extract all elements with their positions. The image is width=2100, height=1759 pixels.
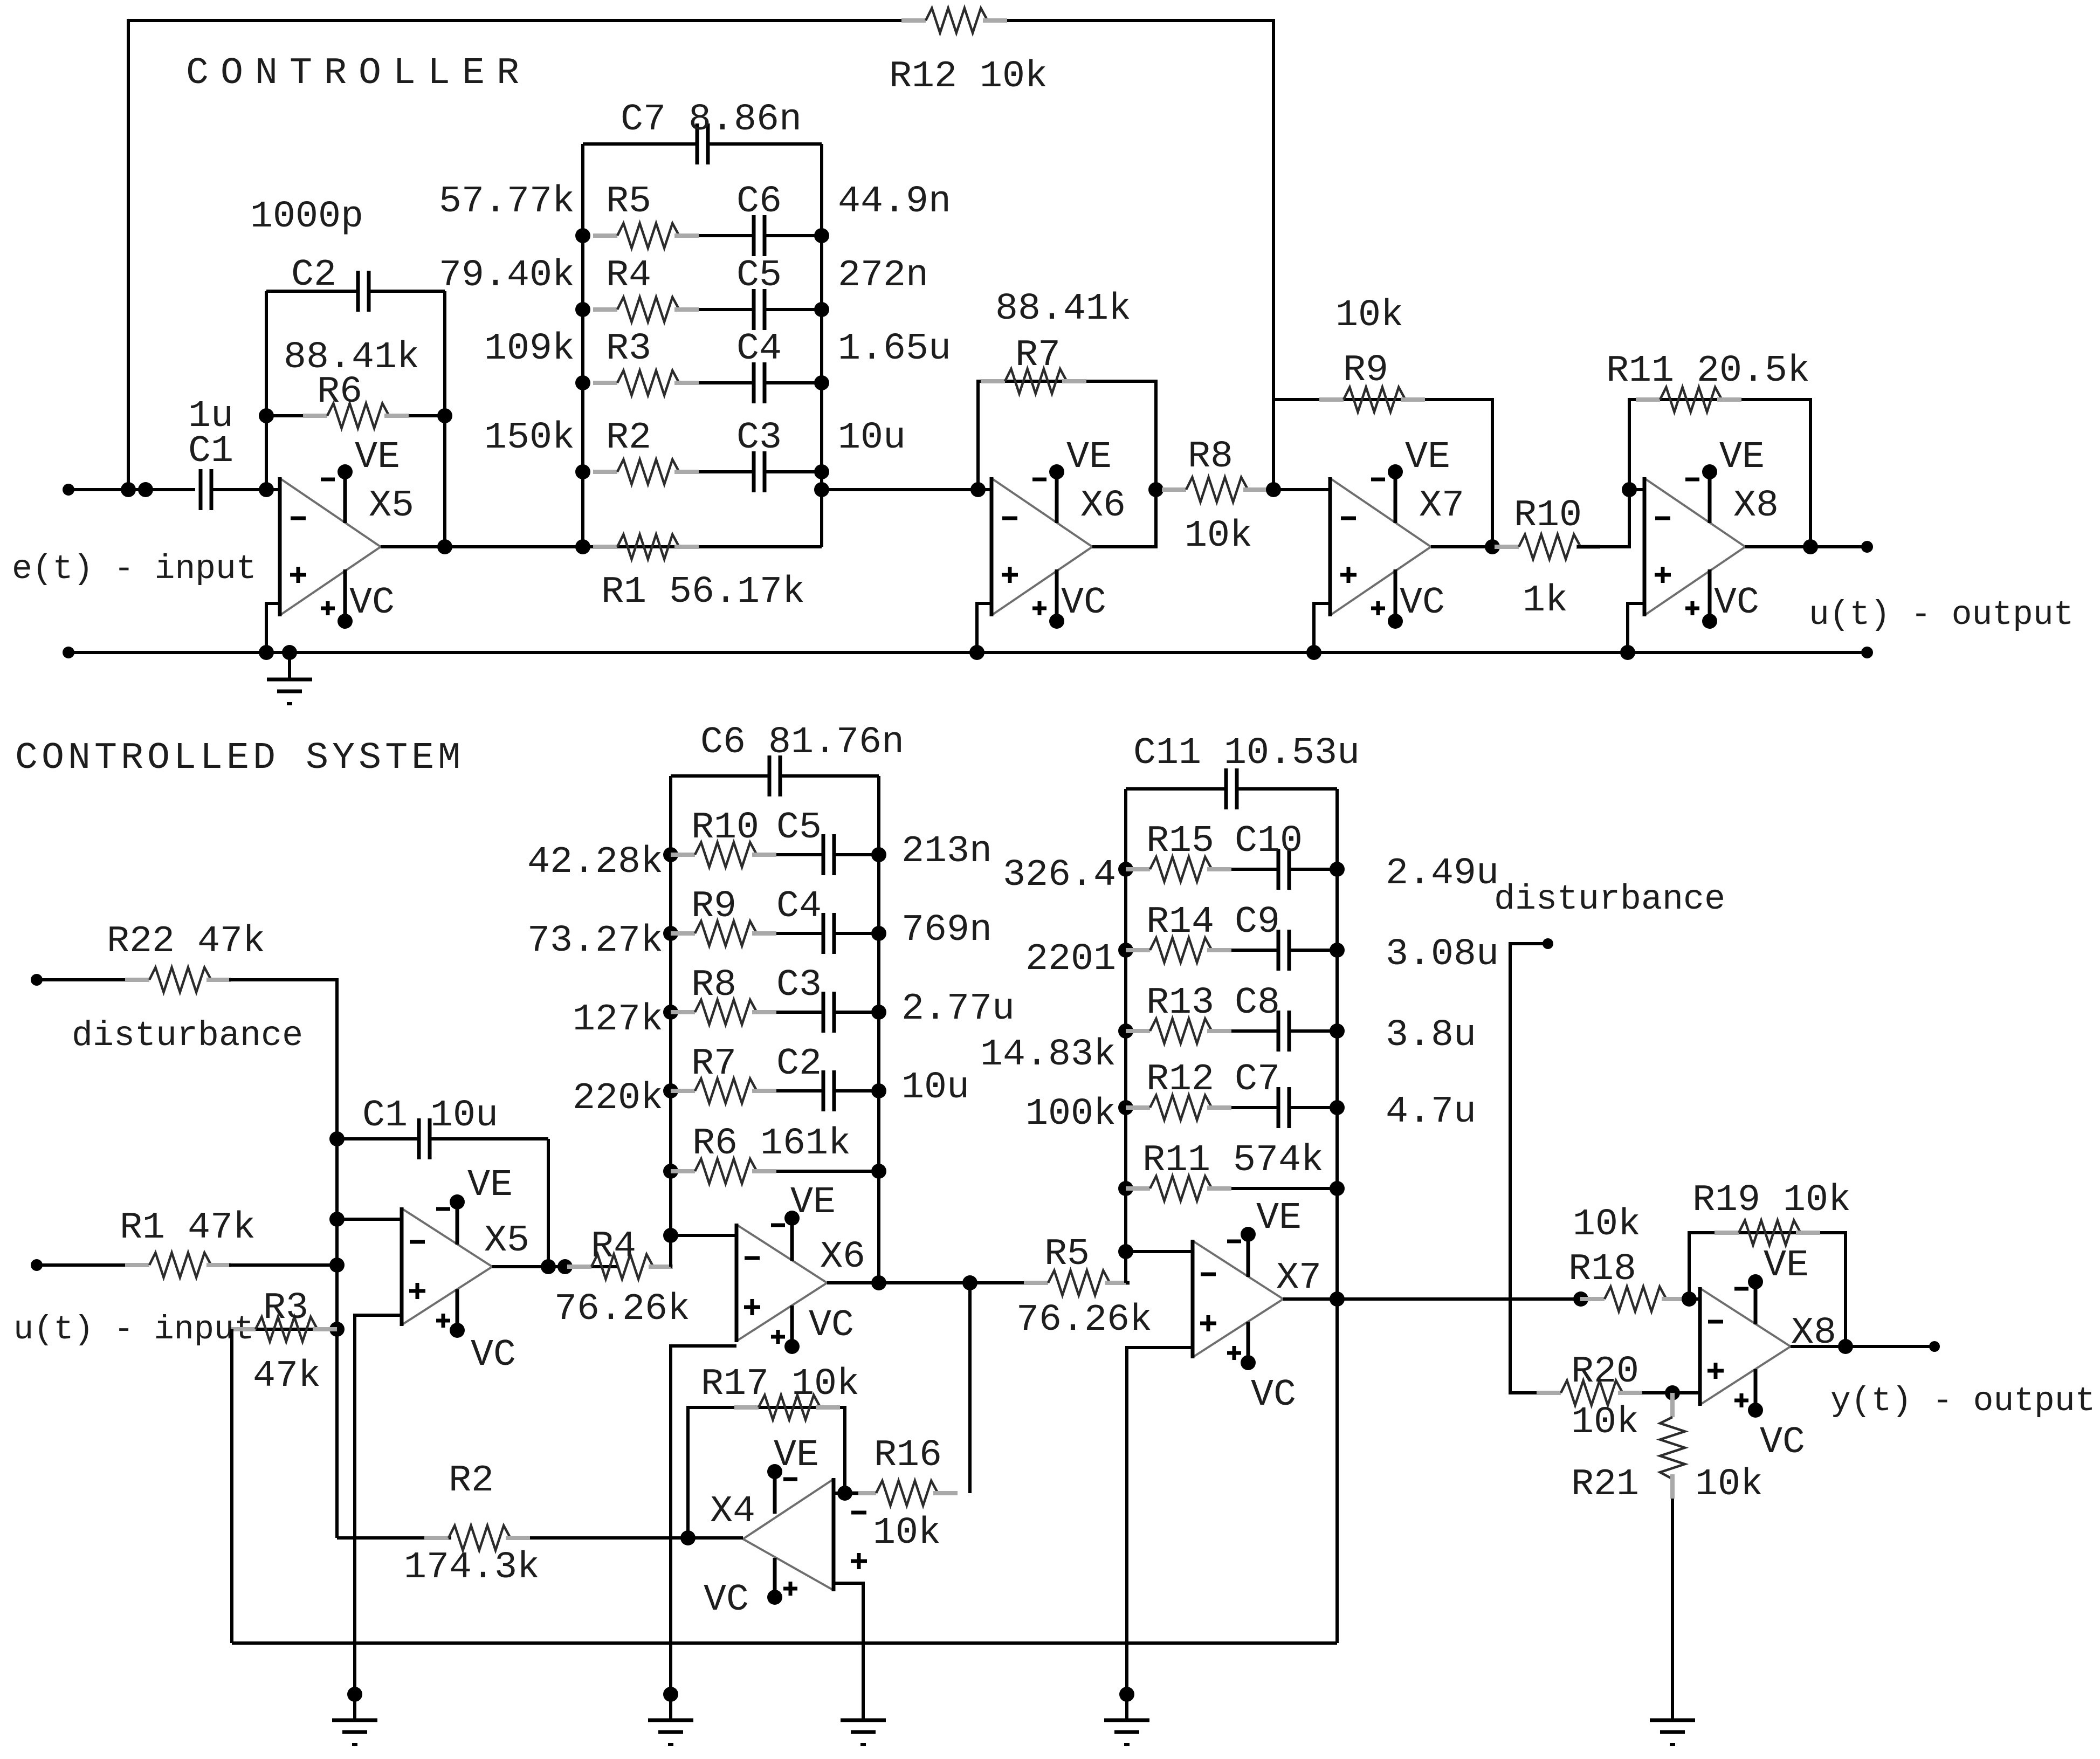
node R6 left (259, 408, 274, 423)
svg-text:10k: 10k (1571, 1401, 1639, 1444)
svg-text:R12: R12 (1146, 1059, 1214, 1101)
node rail X7 (1306, 645, 1321, 660)
svg-text:220k: 220k (573, 1077, 663, 1120)
op-amp X6 (992, 478, 1092, 547)
svg-text:C7 8.86n: C7 8.86n (621, 99, 802, 141)
svg-text:R20: R20 (1571, 1351, 1639, 1393)
wire R11 to bus (1231, 1187, 1337, 1190)
svg-text:C5: C5 (776, 807, 822, 849)
node X4 minus (837, 1486, 852, 1501)
resistor R10 (663, 847, 678, 862)
resistor R8 (1162, 487, 1186, 492)
svg-text:R2: R2 (449, 1460, 494, 1502)
svg-text:C2: C2 (776, 1043, 822, 1085)
svg-text:10u: 10u (901, 1067, 969, 1109)
svg-text:10k: 10k (1335, 294, 1403, 337)
resistor R2 (424, 1536, 449, 1540)
ladder2 left bus (1124, 789, 1127, 1283)
resistor R11 ladder2 (1118, 1181, 1133, 1196)
node ladder2 bus out (1330, 1291, 1345, 1307)
resistor R1 (575, 539, 590, 554)
svg-text:R8: R8 (1188, 436, 1233, 478)
node X8b out (1838, 1339, 1853, 1354)
wire R21 to ground (1671, 1499, 1674, 1720)
svg-text:X4: X4 (710, 1490, 755, 1533)
wire X7 out (1431, 545, 1518, 548)
node rail X8 (1620, 645, 1635, 660)
wire input to R1 (37, 1263, 127, 1267)
resistor R22 (125, 978, 149, 982)
resistor R1 (125, 1263, 149, 1267)
ladder1 right bus (877, 776, 880, 1283)
svg-text:C1: C1 (188, 430, 233, 473)
svg-text:C9: C9 (1235, 901, 1280, 944)
svg-text:R4: R4 (606, 255, 651, 297)
svg-text:VE: VE (355, 436, 400, 479)
svg-text:X8: X8 (1791, 1312, 1836, 1355)
wire to C5 (776, 853, 823, 856)
ground X6b (648, 1719, 693, 1722)
svg-text:R16: R16 (874, 1434, 942, 1477)
wire to C2 (776, 1089, 823, 1092)
wire X6 plus jog (977, 603, 992, 652)
resistor R14 (1118, 943, 1133, 958)
wire X7b plus jog to ground (1127, 1348, 1193, 1720)
node X7b minus (1118, 1244, 1133, 1259)
svg-text:R1 47k: R1 47k (120, 1207, 256, 1249)
node R11 right (1330, 1181, 1345, 1196)
terminal left rail (63, 647, 74, 658)
svg-text:10k: 10k (1695, 1463, 1763, 1506)
capacitor C2 (356, 271, 360, 312)
wire R12 to X7 input drop (1007, 20, 1273, 490)
svg-text:R9: R9 (691, 885, 736, 928)
wire R3 row (232, 1328, 337, 1331)
resistor R10 (1495, 545, 1519, 549)
svg-text:y(t) - output: y(t) - output (1830, 1382, 2095, 1420)
svg-text:R4: R4 (591, 1226, 636, 1268)
ground X8b (1650, 1719, 1695, 1722)
svg-text:VC: VC (471, 1334, 516, 1377)
wire R1 to bus (229, 1263, 337, 1267)
capacitor C5 (752, 289, 756, 330)
node X6 out junction (1148, 482, 1163, 497)
wire R1 row (583, 545, 822, 548)
wire minus to X6b (671, 1234, 736, 1237)
node ground stem X6b (663, 1687, 678, 1702)
op-amp X7 (1193, 1241, 1283, 1299)
resistor R19 (1715, 1231, 1739, 1235)
svg-text:213n: 213n (901, 830, 992, 873)
wire to C8 (1231, 1029, 1278, 1033)
svg-text:C1 10u: C1 10u (362, 1095, 498, 1137)
svg-text:R15: R15 (1146, 820, 1214, 863)
wire feedback right vertical (443, 291, 446, 547)
svg-text:X5: X5 (484, 1220, 529, 1262)
wire X7 plus jog (1314, 603, 1330, 652)
wire R6 row right (409, 414, 445, 417)
capacitor C9 (1277, 930, 1280, 971)
resistor R20 (1537, 1391, 1561, 1395)
svg-text:C3: C3 (776, 964, 822, 1007)
node X8 out (1803, 539, 1818, 554)
resistor R7 (981, 379, 1005, 383)
svg-text:R17 10k: R17 10k (701, 1363, 859, 1406)
svg-text:X6: X6 (820, 1236, 865, 1279)
svg-text:disturbance: disturbance (72, 1016, 303, 1056)
wire to C3 (776, 1011, 823, 1014)
node ground stem X5b (347, 1687, 362, 1702)
wire X5 output (381, 545, 583, 548)
svg-text:10k: 10k (1573, 1204, 1641, 1246)
svg-text:C4: C4 (736, 328, 782, 370)
capacitor C3 (822, 992, 825, 1033)
wire C11 row (1126, 787, 1226, 791)
node ladder1 bus out (871, 1275, 886, 1290)
capacitor C5 (822, 834, 825, 875)
svg-text:VE: VE (1405, 436, 1450, 479)
svg-text:76.26k: 76.26k (554, 1288, 690, 1331)
op-amp X5 (402, 1208, 492, 1267)
node R18 left (1573, 1291, 1588, 1307)
svg-text:2.77u: 2.77u (901, 988, 1015, 1030)
capacitor C4 (822, 913, 825, 954)
wire R3 feedback vertical (230, 1329, 233, 1643)
resistor R21 (vertical) (1670, 1393, 1675, 1417)
wire X7b out (1283, 1297, 1581, 1301)
svg-text:C6 81.76n: C6 81.76n (700, 722, 904, 764)
wire R20 to X8b plus (1642, 1391, 1700, 1394)
resistor R8 (663, 1005, 678, 1020)
wire R6 to bus (776, 1170, 879, 1173)
svg-text:R7: R7 (1015, 334, 1061, 377)
svg-text:R8: R8 (691, 964, 736, 1007)
op-amp X5 (280, 478, 381, 547)
node R1 right (329, 1258, 345, 1273)
node X5 out (437, 539, 452, 554)
node rail X5 (259, 645, 274, 660)
capacitor C1 (199, 469, 203, 510)
svg-text:VC: VC (349, 582, 395, 624)
svg-text:R3: R3 (263, 1287, 308, 1330)
svg-text:VC: VC (1400, 582, 1445, 624)
op-amp X7 (1330, 478, 1431, 547)
svg-text:VC: VC (1760, 1421, 1805, 1464)
svg-text:C10: C10 (1235, 820, 1303, 863)
terminal right rail (1861, 647, 1873, 658)
node R16 riser (962, 1275, 977, 1290)
svg-text:R22 47k: R22 47k (107, 920, 265, 963)
ladder2 right bus (1335, 789, 1339, 1643)
svg-text:C4: C4 (776, 885, 822, 928)
resistor R6 (303, 414, 327, 418)
wire R4 to C5 (699, 308, 754, 311)
svg-text:u(t) - output: u(t) - output (1809, 596, 2074, 634)
svg-text:2.49u: 2.49u (1386, 853, 1499, 895)
wire R16 to X4 minus (834, 1492, 858, 1495)
svg-text:769n: 769n (901, 909, 992, 952)
terminal disturbance 2 (1543, 938, 1553, 949)
node R6 right (437, 408, 452, 423)
resistor R17 (734, 1405, 759, 1410)
wire C1 row (337, 1137, 419, 1140)
svg-text:R11 20.5k: R11 20.5k (1606, 350, 1810, 393)
wire X6 out (1092, 490, 1156, 547)
wire R7 loop (978, 381, 1156, 490)
node X5 minus (259, 482, 274, 497)
wire top loop from input to R12 to X7 input (128, 20, 901, 490)
node X4 out (680, 1530, 696, 1545)
bus X5b input (335, 1139, 339, 1538)
wire R2 row (337, 1536, 451, 1540)
wire R2 to C3 (699, 470, 754, 473)
svg-text:3.08u: 3.08u (1386, 933, 1499, 976)
wire R5 to C6 (699, 234, 754, 237)
svg-text:76.26k: 76.26k (1016, 1299, 1152, 1342)
resistor R5 (575, 228, 590, 243)
wire C7 row (583, 142, 697, 146)
capacitor C3 (752, 451, 756, 492)
svg-text:73.27k: 73.27k (527, 920, 663, 963)
input terminal e(t) (63, 484, 74, 496)
ladder left bus (581, 144, 584, 547)
resistor R6 ladder1 (663, 1164, 678, 1179)
svg-text:VE: VE (1719, 436, 1765, 479)
resistor R16 (852, 1491, 876, 1495)
svg-text:R7: R7 (691, 1043, 736, 1085)
svg-text:272n: 272n (838, 255, 928, 297)
svg-text:R2: R2 (606, 417, 651, 459)
resistor R3 (231, 1327, 256, 1331)
svg-text:C7: C7 (1235, 1059, 1280, 1101)
op-amp X8 (1700, 1288, 1791, 1346)
wire to C7 (1231, 1106, 1278, 1109)
svg-text:88.41k: 88.41k (995, 288, 1131, 331)
wire R5 to ladder2 (1126, 1281, 1130, 1284)
svg-text:C2: C2 (291, 254, 336, 297)
svg-text:e(t) - input: e(t) - input (12, 550, 257, 588)
wire C3 to bus (765, 470, 822, 473)
svg-text:127k: 127k (573, 999, 663, 1041)
svg-text:R1 56.17k: R1 56.17k (601, 571, 805, 614)
capacitor C4 (752, 362, 756, 403)
svg-text:42.28k: 42.28k (527, 841, 663, 884)
svg-text:100k: 100k (1025, 1093, 1116, 1136)
wire C3 to bus (834, 1011, 879, 1014)
node (541, 1259, 556, 1274)
svg-text:10k: 10k (873, 1512, 941, 1555)
svg-text:R6: R6 (317, 371, 362, 414)
svg-text:disturbance: disturbance (1494, 879, 1725, 919)
node (121, 482, 136, 497)
node R18 right (1682, 1291, 1697, 1307)
node (557, 1259, 573, 1274)
node C1 left (329, 1131, 345, 1146)
node X6b minus (663, 1228, 678, 1243)
svg-text:X8: X8 (1733, 485, 1779, 527)
svg-text:174.3k: 174.3k (404, 1547, 540, 1589)
svg-text:VE: VE (1256, 1197, 1302, 1240)
wire X6b out (827, 1281, 1048, 1284)
node rail X6 (969, 645, 984, 660)
node X8 minus (1622, 482, 1637, 497)
resistor R5 (1024, 1281, 1048, 1285)
resistor R2 (575, 464, 590, 479)
terminal disturbance 1 (31, 974, 43, 986)
node R3 right (329, 1322, 345, 1337)
wire X4 out (688, 1536, 743, 1540)
svg-text:44.9n: 44.9n (838, 181, 951, 223)
node X6 minus (970, 482, 986, 497)
capacitor C6 (752, 215, 756, 256)
ladder1 left bus (669, 776, 672, 1267)
svg-text:C6: C6 (736, 181, 782, 223)
wire R2 to X4 out (530, 1536, 688, 1540)
svg-text:10k: 10k (1185, 515, 1252, 558)
svg-text:VC: VC (809, 1304, 854, 1347)
capacitor C7 (1277, 1087, 1280, 1128)
wire to C10 (1231, 868, 1278, 871)
wire X8 plus jog (1628, 603, 1644, 652)
svg-text:X6: X6 (1080, 485, 1126, 527)
ground X4 (841, 1719, 886, 1722)
svg-text:C5: C5 (736, 255, 782, 297)
svg-text:X5: X5 (369, 485, 414, 527)
node R6 right (871, 1164, 886, 1179)
svg-text:150k: 150k (484, 417, 575, 459)
capacitor C8 (1277, 1011, 1280, 1052)
wire R11 loop (1629, 400, 1810, 547)
resistor R12 (901, 18, 926, 23)
svg-text:VE: VE (467, 1164, 513, 1207)
wire R6 row left (266, 414, 303, 417)
capacitor C11 (1224, 768, 1228, 809)
wire C2 to bus (834, 1089, 879, 1092)
node R20 R21 (1665, 1385, 1680, 1400)
svg-text:R6 161k: R6 161k (692, 1123, 851, 1165)
svg-text:57.77k: 57.77k (439, 181, 575, 223)
ground top (288, 652, 291, 679)
resistor R12 (1118, 1100, 1133, 1115)
svg-text:R10: R10 (691, 807, 759, 849)
svg-text:VE: VE (790, 1181, 836, 1224)
resistor R4 (567, 1265, 591, 1269)
wire C5 to bus (765, 308, 822, 311)
ground X5b (332, 1719, 377, 1722)
terminal u(t) output (1861, 541, 1873, 553)
resistor R3 (575, 375, 590, 390)
wire R10 to X8 riser (1577, 490, 1644, 547)
svg-text:R11 574k: R11 574k (1142, 1139, 1324, 1182)
svg-text:u(t) - input: u(t) - input (13, 1310, 254, 1349)
wire C9 to bus (1289, 949, 1337, 952)
svg-text:79.40k: 79.40k (439, 255, 575, 297)
resistor R9 (663, 926, 678, 941)
wire X5b plus jog to ground (355, 1315, 402, 1720)
wire feedback rail (232, 1641, 1337, 1645)
wire R3 to C4 (699, 381, 754, 384)
svg-text:VC: VC (1251, 1374, 1296, 1417)
wire input to C1 (68, 488, 195, 491)
op-amp X8 (1644, 478, 1745, 547)
wire C10 to bus (1289, 868, 1337, 871)
wire X5b out (492, 1265, 618, 1268)
wire X4 plus jog to ground (834, 1583, 863, 1720)
svg-text:VE: VE (1764, 1245, 1809, 1287)
wire ladder to X6 (822, 488, 992, 491)
svg-text:R13: R13 (1146, 982, 1214, 1025)
svg-text:109k: 109k (484, 328, 575, 370)
svg-text:CONTROLLER: CONTROLLER (186, 52, 531, 95)
resistor R9 (1319, 397, 1344, 402)
wire minus to X7b (1126, 1250, 1193, 1253)
wire R17 loop (688, 1407, 845, 1538)
svg-text:326.4: 326.4 (1003, 854, 1116, 897)
wire R19 loop (1689, 1233, 1846, 1346)
terminal u(t) input (31, 1259, 43, 1271)
capacitor C10 (1277, 849, 1280, 890)
op-amp X6 (736, 1225, 827, 1283)
capacitor C7 (696, 123, 699, 164)
wire C6 row (671, 774, 769, 778)
wire X5 plus jog to rail (266, 603, 280, 652)
wire R18 to X8b (1686, 1297, 1700, 1301)
svg-text:3.8u: 3.8u (1386, 1014, 1476, 1057)
svg-text:C3: C3 (736, 417, 782, 459)
wire to C4 (776, 932, 823, 935)
wire C5 to bus (834, 853, 879, 856)
terminal y(t) output (1929, 1341, 1940, 1352)
ladder right bus (820, 144, 823, 547)
svg-text:R19 10k: R19 10k (1692, 1179, 1851, 1222)
svg-text:10u: 10u (838, 417, 906, 459)
svg-text:C11 10.53u: C11 10.53u (1133, 732, 1360, 775)
node R8 right (1266, 482, 1281, 497)
svg-text:CONTROLLED SYSTEM: CONTROLLED SYSTEM (15, 737, 464, 780)
svg-text:R12 10k: R12 10k (889, 56, 1048, 98)
svg-text:4.7u: 4.7u (1386, 1091, 1476, 1133)
svg-text:R9: R9 (1343, 349, 1388, 392)
svg-text:R5: R5 (606, 181, 651, 223)
wire to C9 (1231, 949, 1278, 952)
wire R4 to ladder bus (671, 1265, 672, 1268)
wire disturbance 2 drop (1510, 944, 1548, 1393)
svg-text:2201: 2201 (1025, 938, 1116, 981)
svg-text:VE: VE (774, 1434, 819, 1477)
svg-text:R21: R21 (1571, 1463, 1639, 1506)
wire C7 to bus (1289, 1106, 1337, 1109)
resistor R7 (663, 1083, 678, 1098)
svg-text:R10: R10 (1514, 494, 1582, 537)
wire C1 right vertical (547, 1139, 550, 1267)
svg-text:C8: C8 (1235, 982, 1280, 1025)
svg-text:VC: VC (1714, 582, 1759, 624)
svg-text:X7: X7 (1419, 485, 1464, 527)
wire X8b out (1791, 1345, 1934, 1348)
wire R9 loop (1273, 400, 1492, 547)
svg-text:1.65u: 1.65u (838, 328, 951, 370)
svg-text:14.83k: 14.83k (980, 1034, 1116, 1076)
wire C1 to X5 (211, 488, 280, 491)
wire X6b plus jog to ground (671, 1346, 736, 1720)
svg-text:47k: 47k (253, 1355, 321, 1398)
svg-text:VC: VC (704, 1579, 749, 1621)
wire R16 riser vertical (968, 1283, 972, 1493)
wire R8 to X7 (1268, 488, 1330, 491)
svg-text:R3: R3 (606, 328, 651, 370)
svg-text:1000p: 1000p (250, 196, 363, 238)
node rail ground stem (282, 645, 297, 660)
